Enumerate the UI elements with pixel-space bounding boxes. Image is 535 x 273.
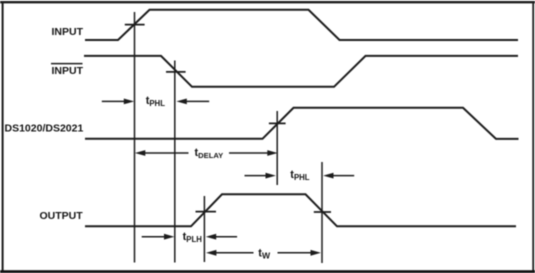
waveform INPUT-bar — [84, 56, 518, 87]
tick on OUTPUT falling edge — [314, 211, 331, 213]
border frame top — [0, 1, 535, 3]
svg-text:INPUT: INPUT — [52, 26, 84, 38]
tick on INPUT rising edge — [125, 24, 145, 26]
reference line 4 (OUTPUT falling edge) — [321, 162, 323, 263]
dimension tW double arrow — [206, 250, 321, 256]
svg-text:DS1020/DS2021: DS1020/DS2021 — [5, 123, 84, 135]
border frame left — [2, 1, 4, 272]
dimension tPHL second: left arrow — [245, 173, 355, 179]
dimension tPHL second: right arrow — [333, 175, 355, 177]
svg-text:OUTPUT: OUTPUT — [40, 210, 84, 222]
dimension tDELAY double arrow — [135, 150, 278, 156]
waveform OUTPUT — [85, 194, 516, 226]
reference line 1 (INPUT edge) — [134, 12, 136, 263]
waveform DS1020/DS2021 — [85, 108, 519, 139]
waveform INPUT — [85, 10, 518, 40]
svg-text:tPLH: tPLH — [183, 231, 203, 244]
tick on INPUT-bar falling edge — [166, 71, 186, 73]
reference line 2 (INPUT-bar edge) — [174, 61, 176, 263]
tick on OUTPUT rising edge — [196, 211, 217, 213]
dimension tPLH: right arrow — [215, 236, 237, 238]
reference line 3 (DS1020 edge) — [276, 111, 278, 185]
svg-text:tPHL: tPHL — [290, 169, 310, 182]
svg-text:tW: tW — [258, 247, 271, 260]
dimension tPLH: left arrow — [142, 234, 237, 240]
border frame bottom thick bar — [0, 270, 535, 273]
tick on DS1020 rising edge — [269, 122, 286, 124]
label INPUT-bar overline — [51, 63, 83, 65]
border frame right — [532, 1, 534, 272]
dimension tPHL first: right arrow — [186, 100, 209, 102]
svg-text:tPHL: tPHL — [146, 95, 166, 108]
reference line 5 (OUTPUT rising edge) — [203, 196, 205, 262]
svg-text:tDELAY: tDELAY — [195, 147, 224, 160]
svg-text:INPUT: INPUT — [52, 65, 84, 77]
dimension tPHL first: left arrow — [102, 99, 209, 105]
